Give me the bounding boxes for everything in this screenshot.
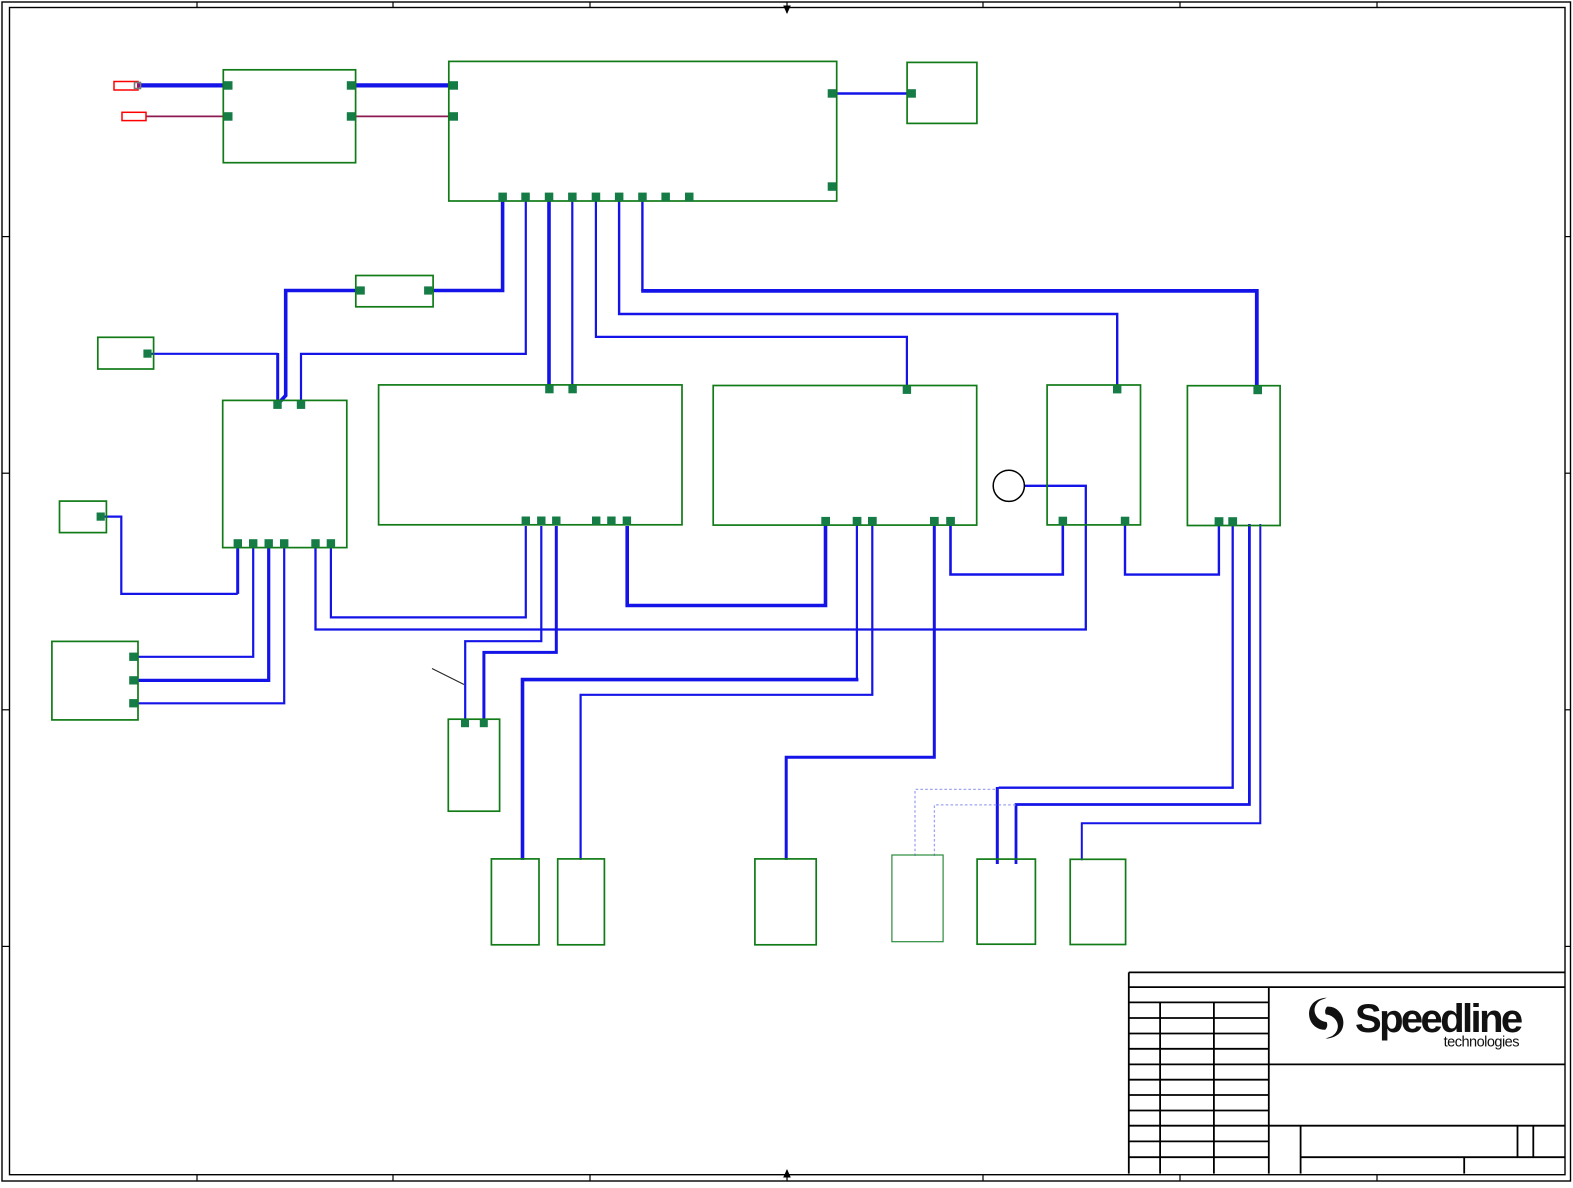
U2 left pins [450, 81, 459, 90]
Speedline logo swoosh [1309, 998, 1343, 1039]
circle connector K1 [993, 470, 1024, 501]
off-page reference R2 [122, 112, 146, 120]
wire net27: U7 stub4 down left down to B6 [1082, 524, 1261, 860]
U7 bottom pins [1215, 517, 1224, 525]
wire net1 thick: off-page ref 1 to U1 pin1 [137, 83, 227, 87]
wire net22: U5 pin2 down left down to B1 [856, 524, 858, 680]
component B4 ghost [892, 855, 943, 942]
component U6 [1047, 385, 1140, 525]
wire net15: U5 pin5 to U6 pin1 [951, 524, 1063, 575]
wire net8 riser [276, 353, 279, 405]
wire net10 thick: U2 bottom pin3 to U4 top pin A [547, 200, 551, 386]
title block full row line 1 [1129, 1125, 1565, 1127]
wire net28 riser to U3 pin1 [236, 546, 239, 594]
border center arrow top [783, 2, 791, 14]
title block table rows [1129, 1001, 1269, 1003]
PINS [97, 81, 1262, 727]
annotation pointer line [432, 669, 464, 685]
title block outline [1129, 971, 1565, 973]
U5 top pin [903, 386, 911, 394]
wire net30 thick: U3 pin3 down left to S3 pin2 [137, 546, 269, 680]
svg-text:technologies: technologies [1444, 1034, 1520, 1050]
component S2 [60, 501, 107, 532]
wire net4 maroon: U1 pin4 to U2 pin2 [353, 115, 452, 117]
U1 left pins [224, 81, 233, 90]
wire net7 thick: fuse F1 right pin to U2 bottom pin1 [426, 200, 503, 291]
border center arrow bottom [783, 1169, 791, 1181]
wire net25: U7 pin2 down left down to B5 pin1 [999, 524, 1233, 788]
component U2 [449, 61, 837, 201]
wire net20 thick: U4 bottom pin3 to S4 pin2 [484, 526, 556, 720]
wire net5: U2 right pin to J1 [834, 92, 909, 94]
wire net21 thick: U4 bottom pin6 to U5 bottom pin1 [627, 524, 825, 606]
S1 right pin [143, 350, 151, 358]
component U7 [1187, 386, 1280, 526]
component B3 [755, 859, 816, 945]
border zone ticks bottom [197, 1175, 1377, 1181]
U6 top pin [1113, 385, 1121, 393]
U2 right pins [828, 89, 837, 98]
component B1 [491, 859, 539, 945]
border zone ticks right [1565, 237, 1571, 947]
title block table columns [1159, 1002, 1161, 1173]
wire net2 maroon: off-page ref 2 to U1 pin2 [146, 115, 227, 117]
F1 pins [357, 286, 365, 294]
component U5 [713, 386, 977, 526]
wire net19: U4 bottom pin2 to S4 pin1 [465, 526, 541, 720]
wire net13: U2 bottom pin6 to U6 top pin [619, 200, 1117, 386]
wire net14 thick: U2 bottom pin7 to U7 top pin [641, 200, 643, 291]
U3 bottom pins [234, 539, 242, 547]
S4 top pins [461, 719, 469, 727]
wire net18: U3 bottom pin6 to U4 bottom pin1 [331, 526, 526, 617]
component J1 [907, 62, 977, 123]
wire net11: U2 bottom pin4 to U4 top pin B [571, 200, 573, 386]
wire net12: U2 bottom pin5 to U5 top pin [596, 200, 907, 386]
wire net29: U3 pin2 down left to S3 pin1 [137, 546, 253, 657]
dashed wire from B4 to B5 riser 2 [934, 805, 1016, 856]
component B6 [1070, 859, 1125, 944]
U6 bottom pins [1059, 517, 1068, 525]
wire net23: U5 pin3 down left down to B2 [581, 524, 873, 860]
wire net3 thick: U1 pin3 to U2 pin1 [353, 83, 452, 87]
dashed wire from B4 to B5 riser 1 [915, 789, 997, 856]
title block full row line 2 [1129, 1156, 1269, 1158]
S2 right pin [97, 513, 105, 521]
component U4 [379, 385, 682, 525]
component U1 [223, 70, 355, 163]
wire net31: U3 pin4 down left to S3 pin3 [137, 546, 284, 703]
J1 left pin [907, 89, 916, 98]
border zone ticks top [197, 2, 1377, 8]
component S3 [52, 641, 138, 720]
component B5 [977, 859, 1035, 944]
component S4 [448, 719, 499, 811]
wire net17: U3 bottom pin5 right to vertical riser to circle K1 [316, 486, 1086, 630]
U7 top pin [1253, 386, 1262, 394]
component S1 [98, 337, 154, 369]
wire net28: S2 right pin down right to U3 bottom pin1 [99, 517, 238, 594]
U1 right pins [347, 81, 356, 90]
wire net26 thick: U7 stub3 down left down to B5 pin2 [1016, 524, 1249, 864]
TITLE BLOCK [1129, 972, 1565, 1173]
gray junction marker [135, 83, 141, 89]
U4 top pins [545, 385, 553, 393]
COMPONENT BOXES [52, 61, 1280, 944]
wire net24: U5 pin4 down left down to B3 [786, 524, 934, 860]
S3 right pins [129, 653, 137, 661]
U4 bottom pins [522, 517, 530, 525]
border zone ticks left [2, 237, 10, 947]
component B2 [558, 859, 605, 945]
wire net6 thick: fuse F1 left pin down to U3 top pin A [279, 291, 363, 405]
U5 bottom pins [821, 517, 830, 525]
U2 bottom pins 1-9 [498, 193, 507, 202]
wire net8: S1 pin right to U3 top pin A [146, 353, 278, 355]
component F1 [356, 276, 433, 307]
logo box bottom [1269, 1063, 1565, 1065]
bottom right cells [1300, 1126, 1302, 1174]
wire net9: U2 bottom pin2 down, left, down to U3 top pin B [301, 200, 526, 405]
component U3 [223, 400, 347, 547]
wire net16: U6 pin2 to U7 pin1 [1125, 524, 1219, 575]
off-page reference R1 [114, 82, 138, 91]
U3 top pins [273, 401, 281, 409]
